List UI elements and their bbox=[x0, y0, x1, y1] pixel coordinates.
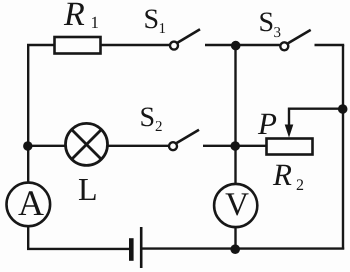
node junction top-middle bbox=[231, 41, 241, 51]
wire voltmeter-to-bottom bbox=[234, 228, 236, 249]
battery cell bbox=[129, 227, 143, 268]
lamp L bbox=[66, 123, 108, 165]
svg-text:P: P bbox=[257, 106, 277, 141]
resistor R1 bbox=[55, 37, 101, 54]
switch S1 bbox=[170, 29, 200, 49]
switch S3 bbox=[280, 30, 310, 50]
svg-text:3: 3 bbox=[274, 25, 282, 41]
svg-text:S: S bbox=[144, 4, 160, 35]
wire left vertical bbox=[27, 44, 29, 182]
switch S2 bbox=[169, 130, 199, 150]
svg-text:A: A bbox=[18, 183, 44, 223]
svg-text:R: R bbox=[272, 157, 292, 192]
wire middle-left to lamp bbox=[28, 145, 65, 147]
node junction middle-center bbox=[230, 141, 240, 151]
svg-text:L: L bbox=[78, 171, 98, 207]
wire bottom-right horizontal bbox=[142, 247, 344, 249]
svg-text:2: 2 bbox=[296, 177, 304, 194]
ammeter A bbox=[7, 183, 51, 227]
wire S2-to-R2 bbox=[203, 145, 267, 147]
rheostat R2 bbox=[267, 139, 313, 155]
wire right vertical bbox=[342, 45, 344, 249]
wire wiper horizontal bbox=[288, 107, 343, 109]
wire R1-to-S1 bbox=[100, 44, 170, 46]
wire top-right horizontal bbox=[315, 44, 345, 46]
svg-text:1: 1 bbox=[159, 21, 167, 37]
node junction bottom bbox=[230, 244, 240, 254]
voltmeter V bbox=[214, 184, 257, 227]
wire ammeter-to-bottom bbox=[27, 227, 29, 250]
svg-text:S: S bbox=[140, 102, 156, 133]
wire middle vertical upper bbox=[234, 45, 236, 183]
svg-text:V: V bbox=[225, 187, 249, 223]
svg-text:R: R bbox=[63, 0, 85, 33]
wire lamp-to-S2 bbox=[108, 145, 169, 147]
node junction middle-left bbox=[23, 141, 32, 150]
svg-text:2: 2 bbox=[155, 119, 163, 135]
wire bottom-left horizontal bbox=[27, 248, 129, 250]
wire S1-to-S3 bbox=[205, 44, 280, 46]
wiper arrowhead P bbox=[285, 125, 294, 138]
svg-text:1: 1 bbox=[91, 13, 100, 32]
wire wiper vertical bbox=[288, 108, 290, 128]
svg-text:S: S bbox=[259, 7, 275, 38]
node junction right bbox=[338, 104, 348, 114]
wire top-left horizontal bbox=[27, 44, 55, 46]
